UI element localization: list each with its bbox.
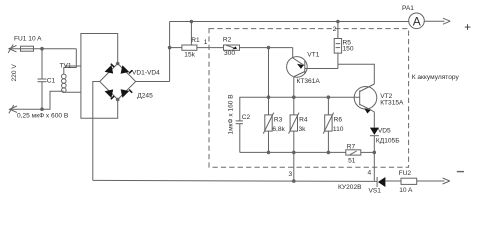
svg-text:FU2: FU2	[399, 170, 412, 177]
wire TV1 secondary bottom lead	[64, 92, 118, 118]
svg-text:3: 3	[289, 171, 293, 178]
svg-text:VD1-VD4: VD1-VD4	[132, 70, 160, 77]
svg-text:КУ202В: КУ202В	[338, 184, 362, 191]
wire branch down to mid rail	[268, 48, 270, 98]
svg-text:VT1: VT1	[307, 52, 319, 59]
wire rail stub down	[190, 22, 192, 46]
node R1 tap	[168, 46, 171, 49]
svg-text:VS1: VS1	[369, 187, 382, 194]
wire bottom rail	[93, 180, 377, 181]
node C1 top	[41, 47, 44, 50]
svg-text:КД105Б: КД105Б	[376, 138, 400, 145]
svg-text:А: А	[413, 14, 421, 28]
wire top rail	[170, 21, 409, 23]
svg-text:VD5: VD5	[378, 127, 391, 134]
svg-text:Д245: Д245	[137, 92, 153, 99]
wire VT2 emitter down	[371, 110, 374, 128]
svg-text:C2: C2	[242, 114, 251, 121]
svg-text:15k: 15k	[184, 51, 195, 58]
svg-text:4: 4	[368, 169, 372, 176]
svg-text:R6: R6	[334, 116, 343, 123]
svg-text:C1: C1	[47, 78, 56, 85]
node rail stub	[190, 20, 193, 23]
node C1 bottom	[41, 108, 44, 111]
thyristor VS1	[376, 177, 378, 187]
svg-text:1мкФ х 160 В: 1мкФ х 160 В	[228, 94, 235, 135]
wire mid rail	[240, 97, 360, 121]
wire VT1 collector down	[293, 77, 295, 98]
resistor R5	[337, 22, 339, 39]
wire AC top line	[9, 48, 76, 50]
resistor R6 (trimmer)	[327, 97, 329, 115]
svg-text:2: 2	[333, 26, 337, 33]
svg-text:PA1: PA1	[402, 5, 414, 12]
transistor VT2	[354, 87, 377, 110]
node R7 gate	[373, 151, 376, 154]
svg-text:51: 51	[348, 157, 356, 164]
node mid rail R6	[327, 96, 330, 99]
resistor R3 (trimmer)	[268, 97, 270, 115]
node bridge top	[116, 62, 119, 65]
svg-text:10 A: 10 A	[399, 187, 413, 194]
resistor R2 (variable)	[224, 45, 240, 50]
svg-text:КТ361А: КТ361А	[297, 78, 321, 85]
wire VT1 base	[305, 68, 338, 70]
wire TV1 secondary top lead	[65, 34, 118, 67]
diode VD1 upper-left	[105, 63, 115, 73]
svg-text:R2: R2	[223, 36, 232, 43]
svg-text:0,25 мкФ х 600 В: 0,25 мкФ х 600 В	[17, 112, 69, 119]
wire node 3 drop	[293, 152, 295, 181]
wire AC bottom line	[10, 91, 64, 109]
wire primary top lead	[64, 49, 77, 74]
AC input arrow bottom	[10, 106, 17, 112]
wire VT2 collector link	[338, 64, 374, 84]
svg-text:110: 110	[333, 126, 344, 133]
svg-text:1: 1	[204, 39, 208, 46]
svg-text:+: +	[464, 22, 471, 34]
wire TV1 secondary body line	[80, 66, 82, 92]
wire lower rail	[240, 151, 346, 153]
wire gate down	[373, 152, 375, 181]
wire R1 to R2	[197, 47, 224, 49]
node lower rail R4	[293, 151, 296, 154]
resistor R1	[182, 45, 197, 50]
wire bridge plus to vertical	[136, 81, 170, 83]
svg-text:R1: R1	[191, 37, 200, 44]
wire plus riser	[169, 22, 171, 82]
wire R2 right	[240, 47, 293, 49]
diode VD5	[370, 128, 379, 135]
dashed control box	[209, 29, 409, 168]
fuse FU1	[21, 46, 34, 51]
node mid rail R4	[293, 96, 296, 99]
svg-text:3k: 3k	[299, 126, 307, 133]
capacitor C2	[236, 120, 243, 122]
svg-text:R3: R3	[274, 116, 283, 123]
node 3 bottom junction	[293, 180, 296, 183]
node lower rail R3	[267, 151, 270, 154]
fuse FU2	[401, 178, 417, 184]
resistor R7	[346, 150, 361, 155]
label minus	[457, 171, 464, 173]
svg-text:R4: R4	[299, 116, 308, 123]
diode VD2 upper-right	[121, 65, 133, 74]
node bridge bottom	[116, 98, 119, 101]
svg-text:6,8k: 6,8k	[272, 126, 285, 133]
node R5 top	[337, 20, 340, 23]
arrow minus out	[443, 178, 450, 184]
AC input arrow top	[9, 46, 17, 52]
svg-text:150: 150	[343, 46, 354, 53]
transistor VT1	[287, 57, 308, 78]
svg-text:КТ315А: КТ315А	[380, 100, 404, 107]
capacitor C1	[41, 49, 43, 79]
svg-text:300: 300	[224, 50, 235, 57]
arrow plus out	[443, 18, 450, 24]
node mid rail R3	[267, 96, 270, 99]
svg-text:R7: R7	[347, 143, 356, 150]
svg-text:TV1: TV1	[60, 62, 72, 69]
wire minus drop	[93, 82, 100, 181]
svg-text:К аккумулятору: К аккумулятору	[412, 74, 460, 81]
bridge rectifier VD1-VD4 diamond	[100, 64, 136, 100]
svg-text:FU1 10 A: FU1 10 A	[14, 36, 42, 43]
diode VD3 lower-left	[105, 89, 115, 99]
transformer TV1 primary winding	[62, 74, 67, 79]
svg-text:220 V: 220 V	[11, 64, 18, 82]
diode VD4 lower-right	[121, 89, 133, 98]
wire R1 row	[170, 47, 182, 49]
wire VT1 emitter lead	[292, 48, 294, 58]
node lower rail R6	[327, 151, 330, 154]
resistor R4 (trimmer)	[293, 97, 295, 115]
node R3 branch	[267, 46, 270, 49]
ammeter PA1	[409, 13, 425, 29]
